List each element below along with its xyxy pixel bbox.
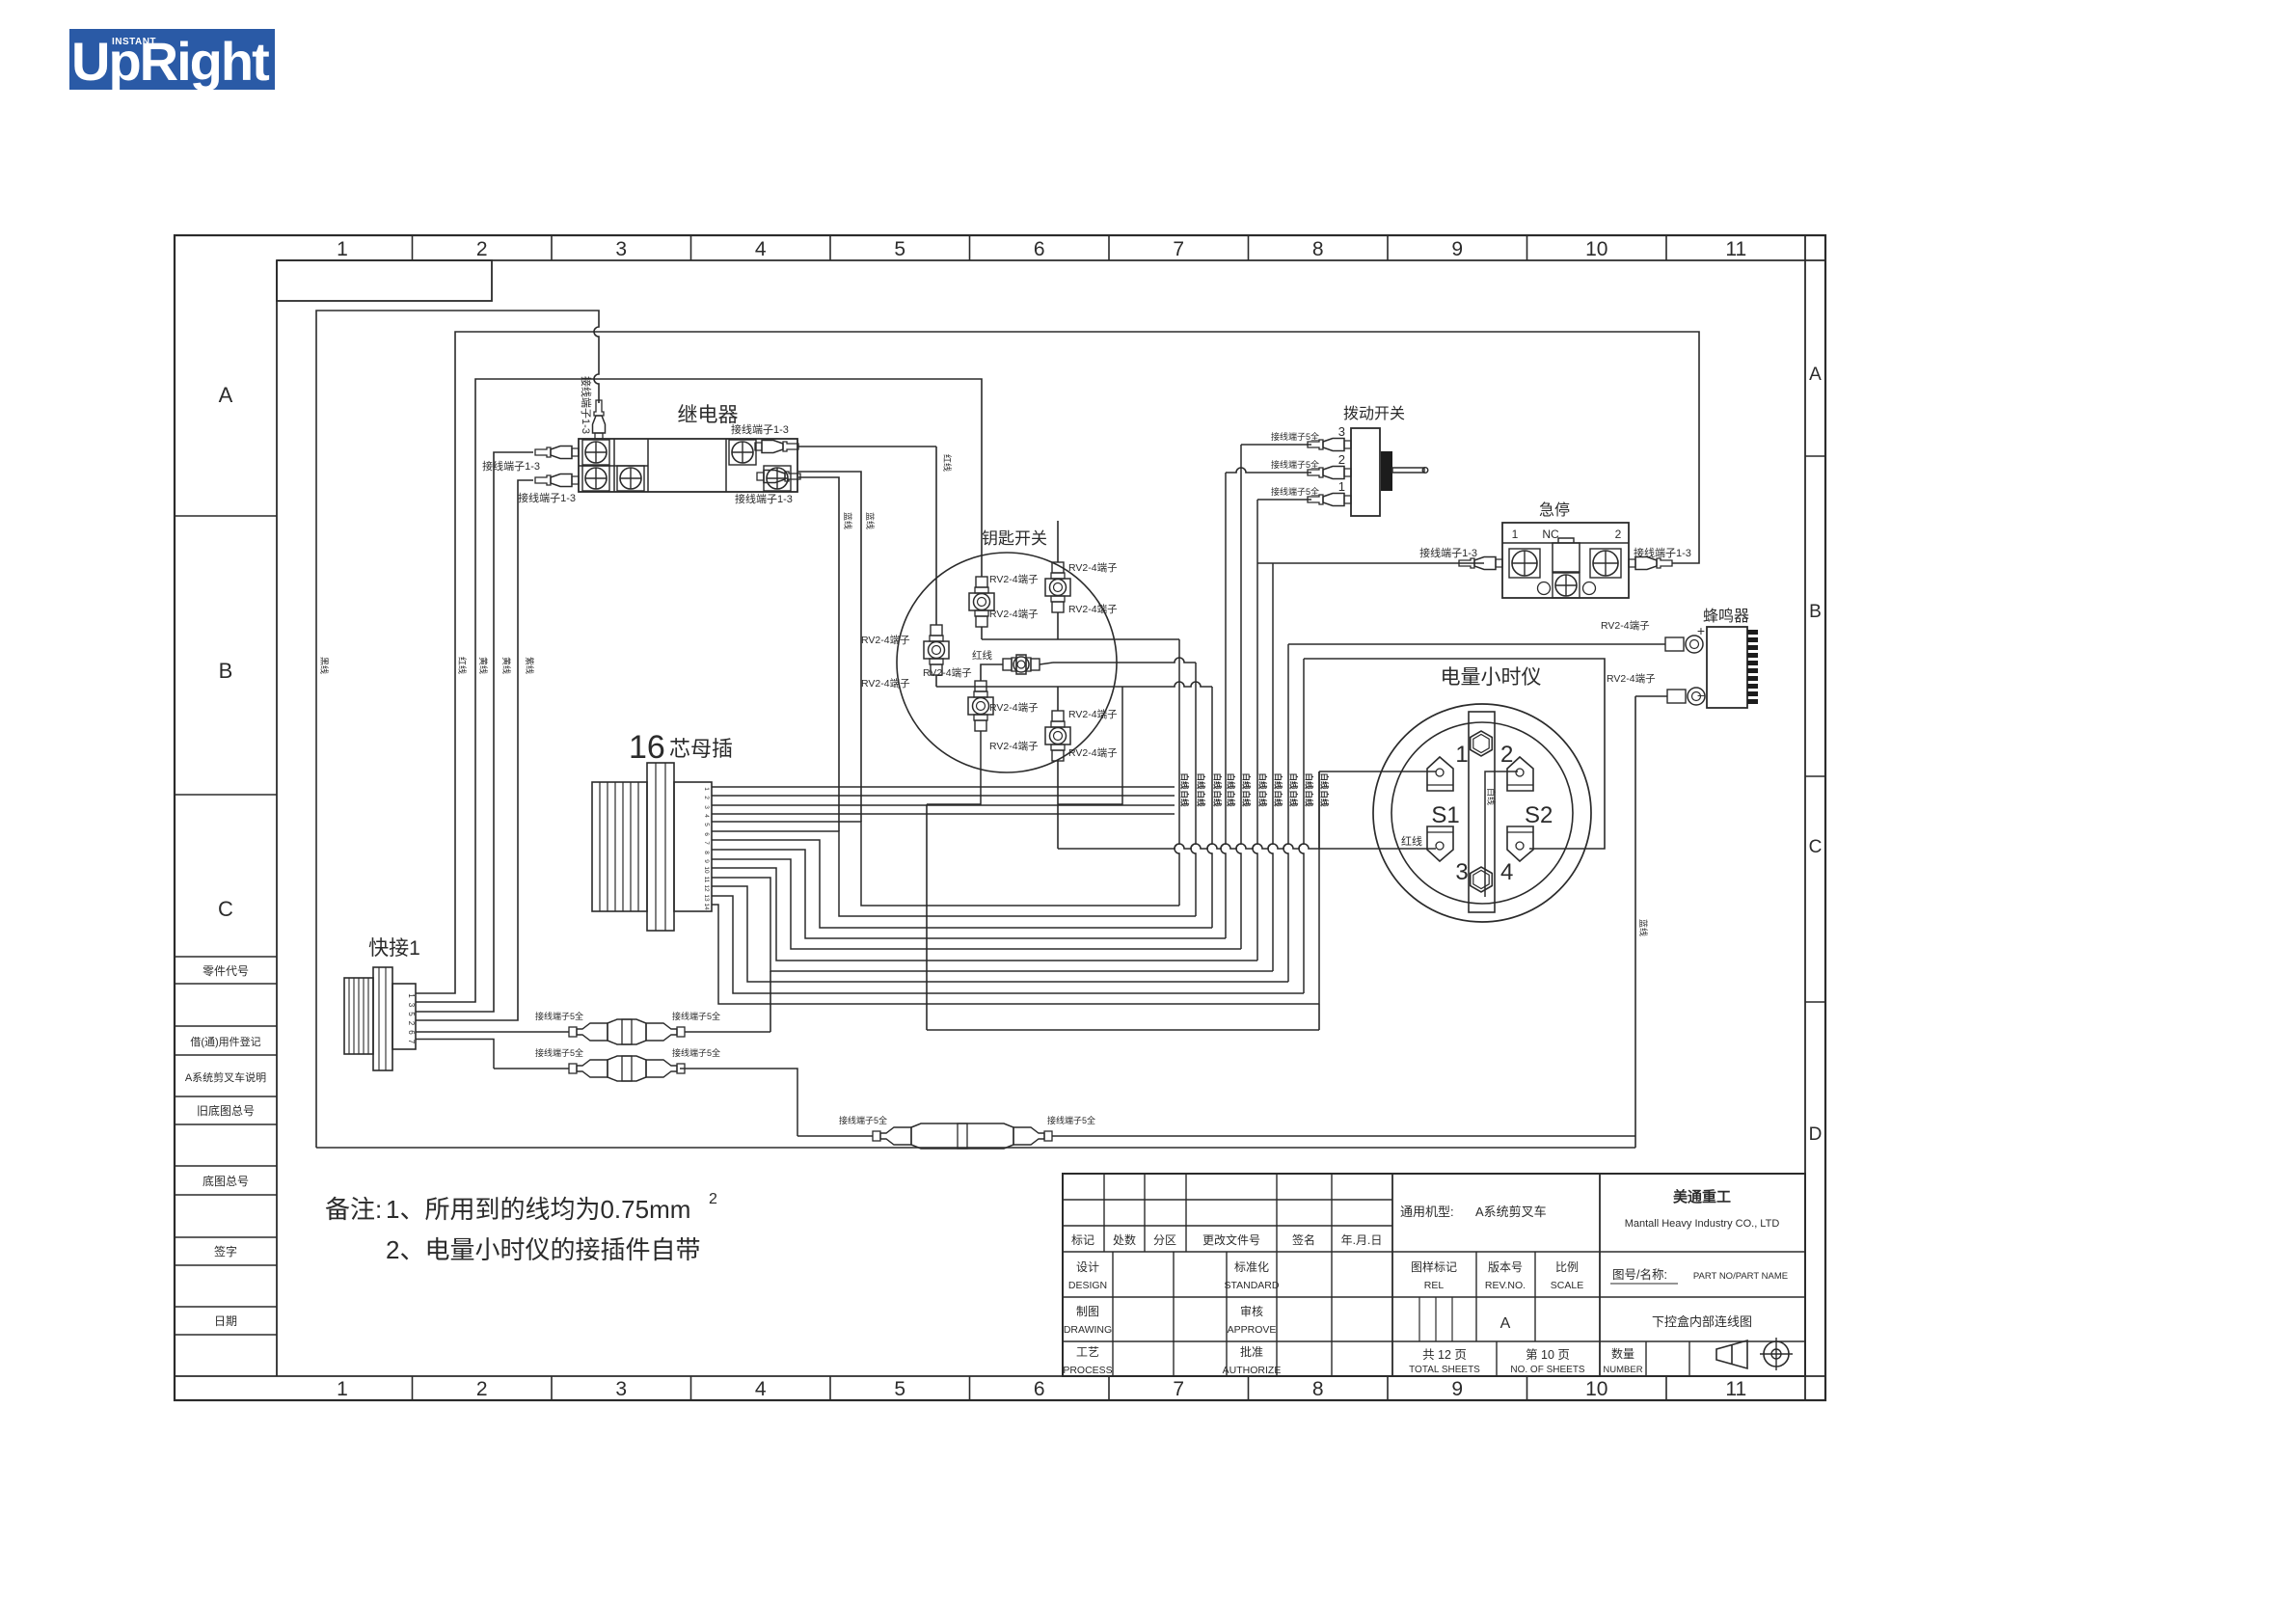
svg-text:白线: 白线 (1242, 790, 1252, 807)
svg-text:3: 3 (615, 238, 627, 260)
svg-text:紫线: 紫线 (525, 657, 535, 674)
svg-text:1: 1 (1455, 742, 1468, 768)
svg-text:SCALE: SCALE (1551, 1280, 1583, 1291)
svg-text:白线: 白线 (1320, 772, 1330, 790)
svg-text:10: 10 (1585, 238, 1607, 260)
svg-text:急停: 急停 (1539, 501, 1570, 519)
svg-text:C: C (218, 897, 233, 921)
svg-text:2: 2 (476, 1378, 488, 1400)
svg-text:RV2-4端子: RV2-4端子 (1068, 603, 1118, 615)
svg-text:8: 8 (703, 851, 710, 854)
svg-text:6: 6 (703, 832, 710, 836)
svg-text:白线: 白线 (1213, 772, 1223, 790)
svg-text:备注:: 备注: (325, 1195, 382, 1224)
svg-text:白线: 白线 (1242, 772, 1252, 790)
svg-text:7: 7 (1173, 238, 1184, 260)
svg-text:PROCESS: PROCESS (1063, 1365, 1112, 1376)
svg-text:接线端子1-3: 接线端子1-3 (580, 376, 593, 434)
svg-text:RV2-4端子: RV2-4端子 (861, 634, 910, 646)
svg-text:RV2-4端子: RV2-4端子 (989, 608, 1039, 620)
svg-text:11: 11 (703, 877, 710, 883)
svg-text:2: 2 (1338, 452, 1345, 467)
svg-text:3: 3 (615, 1378, 627, 1400)
svg-text:接线端子5全: 接线端子5全 (535, 1011, 583, 1021)
svg-text:DESIGN: DESIGN (1068, 1280, 1107, 1291)
svg-text:图号/名称:: 图号/名称: (1612, 1267, 1667, 1282)
svg-text:3: 3 (703, 805, 710, 809)
svg-text:批准: 批准 (1240, 1344, 1263, 1359)
svg-text:图样标记: 图样标记 (1411, 1259, 1457, 1274)
svg-text:白线: 白线 (1180, 790, 1190, 807)
svg-text:旧底图总号: 旧底图总号 (197, 1103, 255, 1118)
svg-text:5: 5 (407, 1012, 416, 1016)
svg-text:A: A (1500, 1315, 1511, 1332)
svg-text:6: 6 (1034, 238, 1045, 260)
svg-text:黄线: 黄线 (501, 657, 512, 674)
svg-text:3: 3 (407, 1003, 416, 1008)
svg-text:REL: REL (1424, 1280, 1445, 1291)
svg-text:处数: 处数 (1113, 1232, 1136, 1247)
svg-text:白线: 白线 (1274, 790, 1283, 807)
svg-text:PART NO/PART NAME: PART NO/PART NAME (1693, 1271, 1788, 1282)
svg-text:数量: 数量 (1611, 1346, 1634, 1361)
svg-text:红线: 红线 (1401, 834, 1422, 848)
svg-text:接线端子5全: 接线端子5全 (672, 1047, 720, 1058)
svg-text:14: 14 (703, 903, 710, 910)
svg-text:DRAWING: DRAWING (1064, 1324, 1112, 1336)
svg-text:底图总号: 底图总号 (203, 1174, 249, 1188)
svg-text:7: 7 (703, 841, 710, 845)
svg-text:年.月.日: 年.月.日 (1341, 1233, 1383, 1247)
svg-text:黄线: 黄线 (478, 657, 489, 674)
svg-text:A系统剪叉车: A系统剪叉车 (1475, 1204, 1547, 1219)
svg-text:4: 4 (755, 238, 767, 260)
svg-text:A: A (219, 383, 233, 407)
svg-text:11: 11 (1725, 1378, 1746, 1400)
svg-text:接线端子1-3: 接线端子1-3 (735, 492, 793, 505)
svg-text:2: 2 (1615, 528, 1622, 541)
svg-text:接线端子5全: 接线端子5全 (1271, 431, 1319, 442)
svg-text:接线端子1-3: 接线端子1-3 (482, 459, 540, 473)
svg-text:制图: 制图 (1076, 1305, 1099, 1318)
svg-text:白线: 白线 (1227, 790, 1236, 807)
svg-text:APPROVE: APPROVE (1228, 1324, 1277, 1336)
svg-text:接线端子1-3: 接线端子1-3 (731, 422, 789, 436)
svg-text:签字: 签字 (214, 1244, 237, 1259)
svg-text:RV2-4端子: RV2-4端子 (1607, 672, 1656, 685)
svg-text:2: 2 (709, 1191, 717, 1207)
svg-text:STANDARD: STANDARD (1225, 1280, 1280, 1291)
svg-text:3: 3 (1455, 859, 1468, 885)
svg-text:白线: 白线 (1197, 772, 1206, 790)
svg-text:白线: 白线 (1289, 772, 1299, 790)
svg-text:5: 5 (894, 1378, 905, 1400)
svg-text:5: 5 (894, 238, 905, 260)
svg-text:第 10 页: 第 10 页 (1526, 1348, 1570, 1362)
svg-text:6: 6 (1034, 1378, 1045, 1400)
svg-text:S2: S2 (1525, 802, 1553, 828)
svg-text:钥匙开关: 钥匙开关 (982, 529, 1047, 548)
svg-text:13: 13 (703, 894, 710, 902)
svg-text:RV2-4端子: RV2-4端子 (1068, 708, 1118, 720)
svg-text:9: 9 (703, 859, 710, 863)
svg-text:NC: NC (1542, 528, 1559, 541)
svg-text:S1: S1 (1431, 802, 1459, 828)
svg-text:4: 4 (703, 814, 710, 818)
svg-text:更改文件号: 更改文件号 (1202, 1232, 1260, 1247)
svg-text:UpRight: UpRight (71, 31, 269, 92)
svg-text:RV2-4端子: RV2-4端子 (989, 740, 1039, 752)
svg-text:8: 8 (1312, 1378, 1324, 1400)
svg-text:借(通)用件登记: 借(通)用件登记 (190, 1035, 260, 1048)
svg-text:接线端子5全: 接线端子5全 (535, 1047, 583, 1058)
svg-text:白线: 白线 (1197, 790, 1206, 807)
svg-text:红线: 红线 (972, 649, 993, 662)
svg-text:快接1: 快接1 (368, 937, 420, 960)
svg-text:电量小时仪: 电量小时仪 (1441, 666, 1542, 689)
svg-text:10: 10 (703, 866, 710, 874)
svg-text:继电器: 继电器 (678, 404, 739, 426)
svg-text:美通重工: 美通重工 (1673, 1188, 1731, 1205)
svg-text:1: 1 (1338, 479, 1345, 494)
svg-text:11: 11 (1725, 238, 1746, 260)
svg-text:7: 7 (407, 1040, 416, 1044)
svg-text:D: D (1809, 1124, 1823, 1145)
svg-text:2: 2 (407, 1021, 416, 1026)
svg-text:零件代号: 零件代号 (203, 964, 249, 978)
svg-text:RV2-4端子: RV2-4端子 (989, 701, 1039, 714)
svg-text:RV2-4端子: RV2-4端子 (1601, 619, 1650, 632)
svg-text:签名: 签名 (1292, 1232, 1315, 1247)
svg-text:版本号: 版本号 (1488, 1260, 1523, 1274)
svg-text:接线端子1-3: 接线端子1-3 (1419, 546, 1477, 559)
svg-text:比例: 比例 (1555, 1260, 1579, 1274)
svg-text:通用机型:: 通用机型: (1400, 1204, 1454, 1219)
svg-text:工艺: 工艺 (1076, 1345, 1099, 1359)
svg-text:RV2-4端子: RV2-4端子 (1068, 561, 1118, 574)
svg-text:蓝线: 蓝线 (865, 512, 876, 529)
svg-text:1: 1 (337, 238, 348, 260)
svg-text:标准化: 标准化 (1234, 1260, 1269, 1274)
svg-text:TOTAL SHEETS: TOTAL SHEETS (1409, 1365, 1480, 1375)
svg-text:7: 7 (1173, 1378, 1184, 1400)
svg-text:日期: 日期 (214, 1314, 237, 1328)
svg-text:下控盒内部连线图: 下控盒内部连线图 (1652, 1314, 1752, 1329)
svg-text:NO. OF SHEETS: NO. OF SHEETS (1510, 1365, 1585, 1375)
svg-text:接线端子5全: 接线端子5全 (672, 1011, 720, 1021)
svg-text:白线: 白线 (1227, 772, 1236, 790)
svg-text:12: 12 (703, 884, 710, 892)
svg-text:白线: 白线 (1320, 790, 1330, 807)
svg-text:4: 4 (755, 1378, 767, 1400)
svg-text:B: B (1809, 602, 1822, 622)
svg-text:6: 6 (407, 1030, 416, 1035)
svg-text:蜂鸣器: 蜂鸣器 (1703, 608, 1749, 625)
svg-text:16: 16 (629, 729, 665, 766)
svg-text:白线: 白线 (1289, 790, 1299, 807)
svg-text:标记: 标记 (1071, 1233, 1094, 1247)
svg-text:1: 1 (1512, 528, 1519, 541)
svg-text:设计: 设计 (1076, 1260, 1099, 1274)
svg-text:A系统剪叉车说明: A系统剪叉车说明 (185, 1070, 266, 1084)
svg-text:RV2-4端子: RV2-4端子 (923, 666, 972, 679)
svg-text:审核: 审核 (1240, 1304, 1263, 1318)
svg-text:白线: 白线 (1213, 790, 1223, 807)
svg-text:A: A (1809, 365, 1822, 385)
svg-text:白线: 白线 (1258, 772, 1268, 790)
svg-text:1: 1 (703, 787, 710, 791)
svg-text:RV2-4端子: RV2-4端子 (989, 573, 1039, 585)
svg-text:4: 4 (1500, 859, 1513, 885)
svg-text:9: 9 (1451, 1378, 1463, 1400)
svg-text:B: B (219, 659, 233, 683)
svg-text:接线端子5全: 接线端子5全 (839, 1115, 887, 1125)
svg-text:REV.NO.: REV.NO. (1485, 1280, 1526, 1291)
svg-text:2、电量小时仪的接插件自带: 2、电量小时仪的接插件自带 (386, 1235, 700, 1264)
svg-text:白线: 白线 (1258, 790, 1268, 807)
svg-text:黑线: 黑线 (319, 657, 330, 674)
svg-text:接线端子1-3: 接线端子1-3 (1634, 546, 1691, 559)
svg-text:2: 2 (1500, 742, 1513, 768)
svg-text:3: 3 (1338, 424, 1345, 439)
svg-text:8: 8 (1312, 238, 1324, 260)
svg-text:接线端子5全: 接线端子5全 (1271, 459, 1319, 470)
svg-text:共 12 页: 共 12 页 (1422, 1348, 1467, 1362)
svg-text:RV2-4端子: RV2-4端子 (1068, 746, 1118, 759)
svg-text:接线端子5全: 接线端子5全 (1271, 486, 1319, 497)
svg-text:2: 2 (476, 238, 488, 260)
svg-text:C: C (1809, 837, 1823, 857)
svg-text:接线端子1-3: 接线端子1-3 (518, 491, 576, 504)
svg-text:1: 1 (337, 1378, 348, 1400)
svg-text:2: 2 (703, 796, 710, 799)
svg-text:红线: 红线 (457, 657, 468, 674)
svg-text:蓝线: 蓝线 (1638, 919, 1649, 936)
svg-text:1、所用到的线均为0.75mm: 1、所用到的线均为0.75mm (386, 1195, 690, 1224)
svg-text:白线: 白线 (1180, 772, 1190, 790)
svg-text:红线: 红线 (942, 454, 953, 472)
svg-text:芯母插: 芯母插 (669, 737, 733, 761)
svg-text:5: 5 (703, 823, 710, 826)
svg-text:NUMBER: NUMBER (1603, 1365, 1642, 1375)
svg-text:Mantall Heavy Industry CO., LT: Mantall Heavy Industry CO., LTD (1625, 1218, 1780, 1230)
svg-text:拨动开关: 拨动开关 (1343, 405, 1405, 422)
svg-text:1: 1 (407, 993, 416, 998)
svg-text:9: 9 (1451, 238, 1463, 260)
svg-text:白线: 白线 (1486, 788, 1497, 805)
svg-text:分区: 分区 (1153, 1233, 1176, 1247)
svg-text:蓝线: 蓝线 (843, 512, 853, 529)
svg-text:AUTHORIZE: AUTHORIZE (1223, 1365, 1282, 1376)
svg-text:RV2-4端子: RV2-4端子 (861, 677, 910, 690)
svg-text:白线: 白线 (1305, 772, 1314, 790)
svg-text:白线: 白线 (1305, 790, 1314, 807)
svg-text:白线: 白线 (1274, 772, 1283, 790)
svg-text:接线端子5全: 接线端子5全 (1047, 1115, 1095, 1125)
svg-text:10: 10 (1585, 1378, 1607, 1400)
